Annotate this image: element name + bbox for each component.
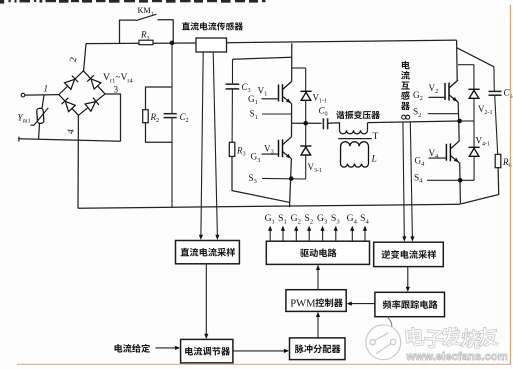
wire: S4 lead to free-wheel line [427,179,474,181]
wire: C5 to R6 [495,95,498,154]
wire: node 4 drop to bottom rail [77,115,79,208]
IGBT V2 [429,80,459,102]
current transformer CT pickup [402,115,410,119]
svg-text:www.elecfans.com: www.elecfans.com [406,351,508,363]
wire: R3 bottom slant to bus [232,156,289,202]
node: S3 junction [289,176,294,181]
block: DC current sampling 直流电流采样 [176,241,240,264]
bridge diode Vr3 (node4 to node1) [62,98,76,112]
label 电流给定 [115,344,150,353]
label 电流互感器 (vertical) [401,61,410,110]
wire: R6 bottom diagonal to rail corner [461,168,499,204]
svg-text:1: 1 [44,83,49,93]
wire: lower-left rail [19,137,121,142]
wire+arrow: PWM controller up to drive circuit [316,265,320,290]
varistor Ym1 [31,95,49,139]
block: inverter current sampling 逆变电流采样 [374,242,444,266]
bridge diode Vr2 (node3 to node2) [87,75,101,89]
diode V4-1 [469,147,480,156]
svg-text:PWM: PWM [290,298,316,309]
wire+arrow: frequency tracking to PWM controller [347,302,375,306]
wire: C2 bottom to rail [171,118,173,208]
wire: free-wheel diode chain (right leg) [458,65,474,181]
IGBT V4 [429,141,460,163]
wire: C5 top lead [493,67,495,92]
wire+arrow: pulse distributor up to PWM controller [316,312,320,338]
cropped caption text row (cut off at top edge) [0,0,266,4]
IGBT V3 [262,137,292,159]
resistor R1 [139,40,153,45]
wire: midpoint to free-wheel line [460,120,474,122]
node: right midpoint junction [457,119,462,124]
wire: primary right to midline [367,123,369,131]
watermark text 电子发烧友 [405,326,499,349]
wire+arrow: DC sampling down to current regulator [204,264,208,339]
contactor KM1 (bypass switch across R1) [120,14,174,43]
wires: CT secondary down to inverter sampling [403,122,413,238]
capacitor C5 [489,91,502,95]
svg-text:T: T [373,131,379,142]
svg-text:L: L [371,154,377,165]
wire: C3 to R3 [231,89,233,142]
watermark logo swoosh [387,317,392,329]
wire+arrow: inverter sampling down to frequency tracking [406,267,410,292]
wire: snubber top edge [233,57,292,59]
capacitor C3 [226,84,240,89]
block: pulse distributor 脉冲分配器 [290,338,346,360]
capacitor C0 [323,118,327,129]
wires: sensor outputs down to DC sampling [201,52,218,236]
wire: node 3 drop [105,94,120,141]
arrowheads into DC sampling box [199,235,220,240]
wire: snubber diagonal from top rail [457,48,494,67]
diode V3-1 [300,146,311,155]
capacitor C2 [164,114,177,118]
svg-text:3: 3 [114,85,119,95]
wire: R2 bottom jog [146,123,173,143]
label 谐振变压器 [336,111,380,119]
input terminal [21,93,25,97]
wire: bridge node 2 riser [84,44,86,71]
transformer core bar [338,138,372,140]
induction coil L (secondary loop) [340,142,368,167]
wire: junction drop to C2 [171,43,173,114]
arrowheads into inverter sampling box [402,236,414,241]
resistor R2 [143,110,149,123]
resistor R6 [495,154,501,167]
block: frequency tracking 频率跟踪电路 [375,292,445,316]
bridge diode Vr4 (node4 to node3) [85,98,99,112]
wire+arrow: regulator to pulse distributor [233,349,289,353]
label 直流电流传感器 [182,22,243,30]
wire: R2 top tap [146,87,173,110]
block: current regulator 电流调节器 [181,339,233,363]
wire: left leg bus segments [290,43,292,207]
page border bottom (tan) [17,363,511,365]
node: junction right of R1 [170,41,175,46]
label PWM控制器 [290,298,343,309]
wire+arrow: current reference into regulator [156,346,181,350]
wire: S2 lead [428,113,459,115]
DC current sensor box [196,38,227,52]
resistor R3 [229,142,235,156]
wire: free-wheel diode chain (left leg) [292,68,306,179]
wire: right leg bus segments [457,40,461,204]
wire: top DC+ rail [86,40,457,44]
wire: C3 top lead [232,59,234,84]
bridge diode Vr1 (node1 to node2) [65,76,79,90]
page border right (tan) [510,5,512,364]
wire: S1 lead [262,113,292,115]
wire: S3 lead to free-wheel line [262,177,306,180]
wire: bottom DC- rail [78,204,460,208]
diode V2-1 [468,89,479,98]
IGBT V1 [262,82,292,104]
node: diode-line junction on C0 wire [303,121,308,126]
transformer T primary winding [340,130,368,134]
labels G1 S1 G2 S2 G3 S3 G4 S4 [265,213,370,225]
wire: tank to right-leg midpoint [368,121,460,123]
diode V1-1 [300,91,311,100]
arrows: drive outputs up to gate terminals [268,226,367,242]
block: PWM controller PWM控制器 [286,290,346,312]
wire: midpoint to C0 [292,122,322,124]
watermark logo circle [366,325,401,360]
wire: C0 to transformer [328,123,340,131]
rectifier bridge frame [59,71,105,116]
wire: input to bridge node 1 [25,94,59,97]
node: S4 junction [458,178,463,183]
block: drive circuit 驱动电路 [266,241,369,264]
